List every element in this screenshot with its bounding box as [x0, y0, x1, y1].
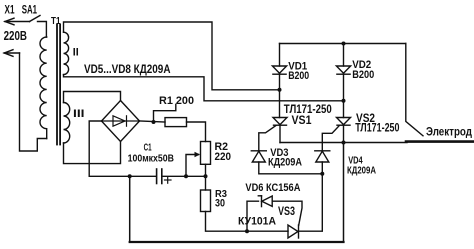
node dot B: [342, 99, 346, 103]
svg-text:220: 220: [215, 151, 232, 163]
svg-text:КД209А: КД209А: [268, 157, 302, 169]
terminal X1 arrow top: [5, 18, 30, 25]
svg-text:ТЛ171-250: ТЛ171-250: [355, 121, 400, 135]
node dot C1/minus rail: [128, 174, 132, 178]
node dot trigger: [245, 229, 249, 233]
wire switch to transformer primary: [38, 22, 47, 38]
wire C1 right to R2 bottom node: [162, 175, 206, 177]
node dot top rail: [342, 42, 346, 46]
wire bottom terminal to primary bottom: [20, 53, 47, 151]
resistor R3: [201, 190, 211, 212]
wire R2 bottom to R3 top: [205, 164, 207, 190]
node dot A: [278, 88, 282, 92]
capacitor C1: [157, 169, 162, 184]
svg-text:220В: 220В: [4, 29, 27, 43]
zener diode VD6: [258, 196, 272, 207]
svg-text:30: 30: [215, 197, 225, 209]
resistor R1: [165, 118, 187, 127]
terminal X1 arrow bottom: [4, 50, 19, 57]
wire VD3 cathode to VS1 gate: [259, 126, 276, 151]
wire top rail to electrode: [406, 44, 423, 136]
wire R3 bottom to trigger node: [206, 212, 289, 232]
transformer core: [57, 25, 60, 145]
svg-text:X1: X1: [5, 3, 15, 17]
R2 wiper arrow: [186, 152, 200, 177]
svg-text:VS1: VS1: [292, 113, 312, 127]
wire winding III bottom to bridge: [64, 142, 121, 164]
svg-text:В200: В200: [288, 70, 309, 82]
electrode terminal line: [406, 140, 474, 143]
switch SA1 blade: [30, 16, 41, 22]
thyristor VS2: [337, 101, 351, 143]
svg-text:Т1: Т1: [51, 15, 61, 27]
transformer T1 primary winding I: [40, 37, 47, 139]
svg-text:VS3: VS3: [278, 206, 295, 218]
svg-text:100мкх50В: 100мкх50В: [128, 152, 175, 164]
wire bridge minus to C1: [89, 121, 156, 176]
wire bridge plus to R1: [140, 121, 166, 122]
wire winding III top to bridge: [64, 92, 121, 103]
diode VD2: [336, 44, 350, 101]
svg-text:VD5...VD8 КД209А: VD5...VD8 КД209А: [84, 62, 171, 76]
wire VD4 cathode to VS2 gate: [322, 126, 339, 151]
diode VD1: [272, 44, 286, 90]
node dot R2 wiper: [184, 174, 188, 178]
wire winding II top to node A: [64, 22, 280, 90]
transformer secondary winding III: [64, 103, 70, 144]
wire VD3 anode to node: [259, 162, 323, 174]
bridge inner diode: [102, 116, 140, 126]
svg-text:VD6 КС156А: VD6 КС156А: [245, 182, 300, 194]
thyristor VS3: [288, 225, 299, 238]
svg-text:SA1: SA1: [22, 3, 38, 17]
wire trigger node up to VD6: [247, 201, 259, 231]
wire minus node down to bottom rail: [130, 143, 344, 242]
wire R1 to R2 top: [187, 122, 206, 142]
wire VS3 cathode to VD3/VD4 node: [299, 162, 323, 231]
wire winding II bottom to node B: [64, 75, 344, 101]
bottom rail: [130, 241, 344, 243]
C1 plus sign: [165, 177, 172, 183]
node dot bridge plus: [152, 120, 156, 124]
thyristor VS1: [273, 90, 287, 143]
cathode rail: [280, 142, 407, 144]
node dot VD3/VD4: [320, 172, 324, 176]
node dot R2 bottom: [204, 174, 208, 178]
svg-text:III: III: [73, 108, 85, 120]
transformer secondary winding II: [64, 32, 69, 74]
svg-text:КУ101А: КУ101А: [238, 216, 276, 228]
bridge rectifier VD5-VD8 diamond: [102, 101, 140, 142]
svg-text:КД209А: КД209А: [347, 164, 376, 176]
diode VD4: [315, 151, 330, 162]
diode VD3: [251, 151, 266, 162]
svg-text:В200: В200: [352, 69, 374, 81]
node dot VS2 cathode: [342, 141, 346, 145]
svg-text:R1 200: R1 200: [159, 95, 194, 107]
top rail: [280, 43, 406, 45]
svg-text:Электрод: Электрод: [426, 124, 472, 138]
svg-text:II: II: [73, 47, 79, 59]
stub from plus node up to label: [154, 104, 176, 122]
wire VD6 to VS3 gate: [272, 201, 302, 225]
potentiometer R2: [201, 142, 211, 165]
